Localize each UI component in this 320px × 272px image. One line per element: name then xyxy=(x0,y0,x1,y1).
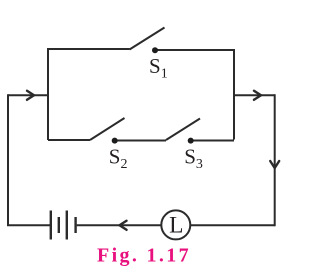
wire middle rail center segment xyxy=(115,140,166,142)
arrowhead current right on right connector xyxy=(254,91,261,100)
wire middle rail right segment xyxy=(191,140,234,142)
wire top rail left segment xyxy=(48,49,130,140)
wire bottom middle segment xyxy=(77,224,161,226)
wire bottom left segment xyxy=(7,224,50,226)
wire outer right vertical xyxy=(274,94,276,226)
wire top rail right segment xyxy=(155,50,234,140)
battery cell plate long 1 xyxy=(50,211,52,240)
svg-text:S3: S3 xyxy=(184,144,203,172)
switch S1 contact dot xyxy=(152,47,158,53)
switch S2 contact dot xyxy=(112,138,118,144)
switch S1 blade xyxy=(130,28,165,50)
wire bottom right segment xyxy=(191,224,275,226)
lamp L circle xyxy=(161,210,190,239)
wire outer left vertical xyxy=(7,94,9,225)
wire left connector xyxy=(8,94,48,96)
svg-text:L: L xyxy=(169,213,183,239)
battery cell plate long 2 xyxy=(66,211,68,240)
svg-text:S2: S2 xyxy=(109,144,128,172)
switch S3 contact dot xyxy=(188,138,194,144)
battery cell plate short 1 xyxy=(58,217,60,233)
svg-text:S1: S1 xyxy=(149,54,168,82)
wire right connector xyxy=(234,94,275,96)
wire middle rail left segment xyxy=(48,139,90,141)
switch S2 blade xyxy=(90,118,125,140)
arrowhead current down on right vertical xyxy=(270,161,279,168)
svg-text:Fig. 1.17: Fig. 1.17 xyxy=(97,245,191,267)
battery cell plate short 2 xyxy=(74,217,76,233)
arrowhead current right on left connector xyxy=(27,91,34,100)
switch S3 blade xyxy=(166,119,200,141)
arrowhead current left on bottom wire xyxy=(120,221,127,230)
